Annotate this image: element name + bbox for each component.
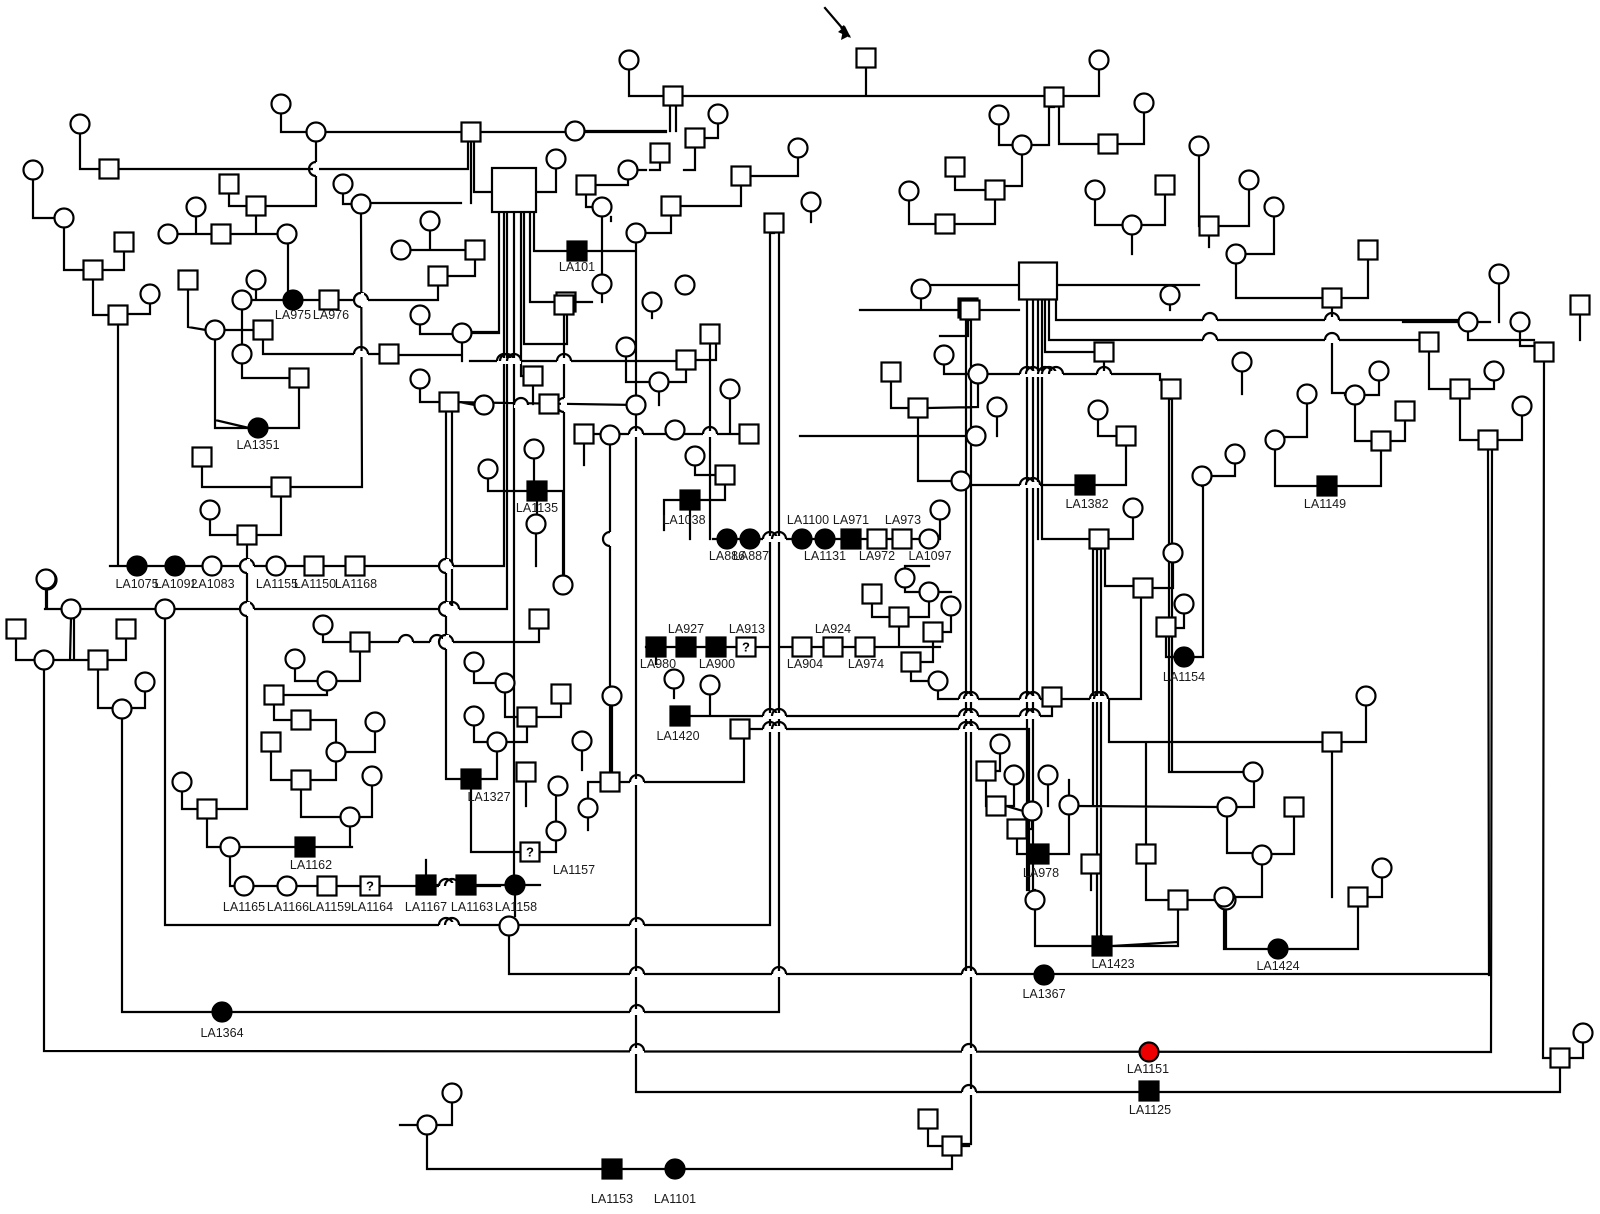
person LA1163 (457, 876, 476, 895)
person (942, 597, 961, 616)
person (573, 732, 592, 751)
person (643, 293, 662, 312)
person (575, 425, 594, 444)
svg-text:LA972: LA972 (859, 549, 895, 563)
person (936, 215, 955, 234)
person (1396, 402, 1415, 421)
person (341, 808, 360, 827)
person (265, 686, 284, 705)
person (421, 212, 440, 231)
person (1157, 618, 1176, 637)
person (1135, 94, 1154, 113)
person (931, 501, 950, 520)
person (1359, 241, 1378, 260)
person LA1154 (1175, 648, 1194, 667)
person (1013, 136, 1032, 155)
person (555, 296, 574, 315)
person (863, 585, 882, 604)
person (366, 713, 385, 732)
person (187, 198, 206, 217)
person (100, 160, 119, 179)
person (716, 466, 735, 485)
svg-text:LA1166: LA1166 (267, 900, 309, 914)
proband arrow (840, 25, 849, 40)
person (518, 708, 537, 727)
person (1045, 88, 1064, 107)
person LA973 (893, 530, 912, 549)
person (1244, 763, 1263, 782)
svg-text:LA900: LA900 (699, 657, 735, 671)
person (1019, 263, 1057, 300)
svg-text:LA1163: LA1163 (451, 900, 493, 914)
person (221, 838, 240, 857)
svg-text:LA1327: LA1327 (467, 790, 510, 804)
svg-text:LA1364: LA1364 (200, 1026, 243, 1040)
svg-text:LA1159: LA1159 (309, 900, 351, 914)
person (1285, 798, 1304, 817)
person (466, 241, 485, 260)
person (991, 735, 1010, 754)
person (206, 321, 225, 340)
person (1323, 289, 1342, 308)
person (1156, 176, 1175, 195)
svg-text:LA1097: LA1097 (908, 549, 951, 563)
person LA1101 (666, 1160, 685, 1179)
person (35, 651, 54, 670)
person (554, 576, 573, 595)
person (1193, 467, 1212, 486)
person (740, 425, 759, 444)
person (1349, 888, 1368, 907)
person LA101 (568, 242, 587, 261)
person (1227, 245, 1246, 264)
person (37, 570, 56, 589)
svg-text:LA1083: LA1083 (191, 577, 234, 591)
person (540, 395, 559, 414)
person (272, 95, 291, 114)
person (890, 608, 909, 627)
person (701, 676, 720, 695)
person LA887 (741, 530, 760, 549)
person (136, 673, 155, 692)
person (1535, 343, 1554, 362)
person LA972 (868, 530, 887, 549)
person (517, 763, 536, 782)
person (986, 181, 1005, 200)
person (1043, 688, 1062, 707)
person LA974 (856, 638, 875, 657)
person (238, 526, 257, 545)
person LA1423 (1093, 937, 1112, 956)
person LA1327 (462, 770, 481, 789)
person LA1151 (1140, 1043, 1159, 1062)
person (352, 195, 371, 214)
person (857, 49, 876, 68)
person LA1157 (521, 843, 540, 862)
person LA1162 (296, 838, 315, 857)
person (1039, 766, 1058, 785)
svg-text:LA1165: LA1165 (223, 900, 265, 914)
person (254, 321, 273, 340)
person (1200, 217, 1219, 236)
person LA886 (718, 530, 737, 549)
svg-text:LA978: LA978 (1023, 866, 1059, 880)
person (882, 363, 901, 382)
person LA927 (677, 638, 696, 657)
person (1357, 687, 1376, 706)
person (201, 501, 220, 520)
person LA1168 (346, 557, 365, 576)
person (55, 209, 74, 228)
person (946, 158, 965, 177)
person (247, 197, 266, 216)
svg-text:LA924: LA924 (815, 622, 851, 636)
person (1266, 431, 1285, 450)
person (278, 225, 297, 244)
person (220, 175, 239, 194)
person LA1367 (1035, 966, 1054, 985)
person (262, 733, 281, 752)
person LA978 (1030, 845, 1049, 864)
person LA1125 (1140, 1082, 1159, 1101)
person LA904 (793, 638, 812, 657)
svg-text:LA1154: LA1154 (1163, 670, 1205, 684)
person (617, 338, 636, 357)
person (440, 393, 459, 412)
person (627, 224, 646, 243)
svg-text:LA1351: LA1351 (236, 438, 279, 452)
svg-text:LA1157: LA1157 (553, 863, 595, 877)
person (179, 271, 198, 290)
person (929, 672, 948, 691)
svg-text:LA1075: LA1075 (115, 577, 158, 591)
person (141, 285, 160, 304)
person (1086, 181, 1105, 200)
person (1479, 431, 1498, 450)
person (496, 674, 515, 693)
person (1253, 846, 1272, 865)
svg-text:LA1155: LA1155 (256, 577, 298, 591)
person (1123, 216, 1142, 235)
person (1551, 1049, 1570, 1068)
person LA1382 (1076, 476, 1095, 495)
person (977, 762, 996, 781)
person (1169, 891, 1188, 910)
svg-text:LA1149: LA1149 (1304, 497, 1346, 511)
person LA976 (320, 291, 339, 310)
person (987, 797, 1006, 816)
person (1346, 386, 1365, 405)
person LA980 (647, 638, 666, 657)
person (1095, 343, 1114, 362)
svg-text:LA913: LA913 (729, 622, 765, 636)
person (686, 447, 705, 466)
person (334, 175, 353, 194)
person (307, 123, 326, 142)
person LA1149 (1318, 477, 1337, 496)
person (462, 123, 481, 142)
person (1117, 427, 1136, 446)
person (1571, 296, 1590, 315)
person (351, 633, 370, 652)
person LA1100 (793, 530, 812, 549)
person (530, 610, 549, 629)
person (961, 301, 980, 320)
person (1162, 380, 1181, 399)
person (84, 261, 103, 280)
person (912, 280, 931, 299)
person (1082, 855, 1101, 874)
person (465, 707, 484, 726)
person LA1159 (318, 877, 337, 896)
person (919, 1110, 938, 1129)
svg-text:LA980: LA980 (640, 657, 676, 671)
person (802, 193, 821, 212)
person (1459, 313, 1478, 332)
person (1023, 802, 1042, 821)
person (1215, 888, 1234, 907)
person LA975 (284, 291, 303, 310)
person (701, 325, 720, 344)
svg-text:LA1100: LA1100 (787, 513, 829, 527)
person LA913 (737, 638, 756, 657)
person (619, 161, 638, 180)
person (601, 426, 620, 445)
svg-text:?: ? (526, 845, 534, 860)
person (579, 799, 598, 818)
person (1026, 891, 1045, 910)
person (969, 365, 988, 384)
person (549, 777, 568, 796)
svg-text:LA101: LA101 (559, 260, 595, 274)
person LA1166 (278, 877, 297, 896)
svg-text:LA1158: LA1158 (495, 900, 537, 914)
person (593, 198, 612, 217)
person (524, 367, 543, 386)
person LA1135 (528, 482, 547, 501)
person (1513, 397, 1532, 416)
person LA900 (707, 638, 726, 657)
person (1372, 432, 1391, 451)
person (115, 233, 134, 252)
person (1420, 333, 1439, 352)
person (1217, 891, 1236, 910)
person (525, 440, 544, 459)
person (233, 291, 252, 310)
svg-text:LA1101: LA1101 (654, 1192, 696, 1206)
svg-text:LA973: LA973 (885, 513, 921, 527)
person LA1083 (203, 557, 222, 576)
svg-text:LA1424: LA1424 (1256, 959, 1299, 973)
svg-text:LA1125: LA1125 (1129, 1103, 1171, 1117)
person (959, 299, 978, 318)
person (593, 275, 612, 294)
person (1090, 51, 1109, 70)
person LA1420 (671, 707, 690, 726)
svg-text:?: ? (366, 879, 374, 894)
person (380, 345, 399, 364)
person (479, 460, 498, 479)
person (1089, 401, 1108, 420)
svg-text:LA975: LA975 (275, 308, 311, 322)
person (318, 672, 337, 691)
person (924, 623, 943, 642)
person (935, 346, 954, 365)
person (789, 139, 808, 158)
person (1511, 313, 1530, 332)
person LA1038 (681, 491, 700, 510)
person (443, 1084, 462, 1103)
person (1373, 859, 1392, 878)
svg-text:LA1420: LA1420 (656, 729, 699, 743)
person (109, 306, 128, 325)
svg-text:LA1164: LA1164 (351, 900, 393, 914)
person LA1075 (128, 557, 147, 576)
svg-text:LA927: LA927 (668, 622, 704, 636)
person (1175, 595, 1194, 614)
person (173, 773, 192, 792)
person (290, 369, 309, 388)
person (990, 106, 1009, 125)
person (193, 448, 212, 467)
person (314, 616, 333, 635)
person (603, 687, 622, 706)
person (62, 600, 81, 619)
person (552, 685, 571, 704)
person (1137, 845, 1156, 864)
person (198, 800, 217, 819)
person (363, 767, 382, 786)
person (156, 600, 175, 619)
person (676, 276, 695, 295)
person (1060, 796, 1079, 815)
person LA1364 (213, 1003, 232, 1022)
person LA1155 (267, 557, 286, 576)
person (488, 733, 507, 752)
person (1164, 544, 1183, 563)
person (24, 161, 43, 180)
person LA1097 (920, 530, 939, 549)
person (212, 225, 231, 244)
svg-text:LA1168: LA1168 (335, 577, 377, 591)
person (1451, 380, 1470, 399)
person LA1150 (305, 557, 324, 576)
person LA1424 (1269, 940, 1288, 959)
person (71, 115, 90, 134)
person (620, 51, 639, 70)
person (1298, 385, 1317, 404)
person (1574, 1024, 1593, 1043)
person (1485, 362, 1504, 381)
svg-text:LA1367: LA1367 (1022, 987, 1065, 1001)
svg-text:LA1153: LA1153 (591, 1192, 633, 1206)
svg-text:LA1135: LA1135 (516, 501, 558, 515)
person LA1153 (603, 1160, 622, 1179)
person (920, 583, 939, 602)
person (272, 478, 291, 497)
person (902, 653, 921, 672)
person (418, 1116, 437, 1135)
person (664, 87, 683, 106)
svg-text:LA1423: LA1423 (1091, 957, 1134, 971)
person (1161, 286, 1180, 305)
svg-text:LA1167: LA1167 (405, 900, 447, 914)
person (117, 620, 136, 639)
person (896, 569, 915, 588)
person (392, 241, 411, 260)
person (1490, 265, 1509, 284)
person (1265, 198, 1284, 217)
svg-text:LA887: LA887 (733, 549, 769, 563)
person (411, 306, 430, 325)
person (731, 720, 750, 739)
person (566, 122, 585, 141)
person (475, 396, 494, 415)
person (547, 150, 566, 169)
person (601, 773, 620, 792)
person (292, 771, 311, 790)
svg-text:LA1151: LA1151 (1127, 1062, 1169, 1076)
person (1233, 353, 1252, 372)
svg-text:LA971: LA971 (833, 513, 869, 527)
person (557, 293, 576, 312)
person (1218, 798, 1237, 817)
person (909, 399, 928, 418)
person (709, 105, 728, 124)
person (1240, 171, 1259, 190)
person (1124, 499, 1143, 518)
person (577, 176, 596, 195)
person (732, 167, 751, 186)
person (1090, 530, 1109, 549)
person (233, 345, 252, 364)
person (527, 515, 546, 534)
person (900, 182, 919, 201)
svg-text:LA976: LA976 (313, 308, 349, 322)
person (988, 398, 1007, 417)
person (662, 197, 681, 216)
svg-text:LA1162: LA1162 (290, 858, 332, 872)
person (159, 225, 178, 244)
person (1370, 362, 1389, 381)
person (1323, 733, 1342, 752)
person (411, 370, 430, 389)
person (429, 267, 448, 286)
person (677, 351, 696, 370)
svg-text:LA904: LA904 (787, 657, 823, 671)
person (651, 144, 670, 163)
person (492, 168, 536, 212)
person (967, 427, 986, 446)
person (1099, 135, 1118, 154)
person LA1167 (417, 876, 436, 895)
person (453, 324, 472, 343)
person LA1131 (816, 530, 835, 549)
person LA1351 (249, 419, 268, 438)
person (1005, 766, 1024, 785)
svg-text:?: ? (742, 640, 750, 655)
person LA1092 (166, 557, 185, 576)
person (765, 214, 784, 233)
svg-text:LA1150: LA1150 (294, 577, 336, 591)
person (38, 571, 57, 590)
svg-text:LA1382: LA1382 (1065, 497, 1108, 511)
person (7, 620, 26, 639)
person (465, 653, 484, 672)
person LA924 (824, 638, 843, 657)
person (292, 711, 311, 730)
person (286, 650, 305, 669)
